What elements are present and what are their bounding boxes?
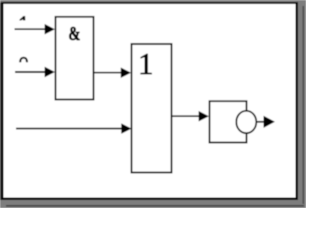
arrowhead W3 (121, 68, 131, 78)
wire W4 (third input, long bottom wire) (16, 128, 125, 130)
svg-text:1: 1 (138, 46, 154, 81)
svg-text:&: & (68, 21, 80, 44)
wire W1 (top input to AND) (15, 28, 48, 30)
AND gate U1 (rectangle) (56, 17, 94, 100)
output wire W6 (256, 121, 266, 123)
output negation circle (236, 111, 256, 133)
wire W3 (AND output to OR input) (94, 72, 124, 74)
frame border (black) (1, 2, 298, 200)
wire W5 (OR output to output block) (172, 115, 203, 117)
frame left dark edge (0, 3, 2, 201)
wire W2 (second input to AND) (15, 71, 48, 73)
arrowhead W5 (199, 111, 209, 121)
OR gate U2 (rectangle) (132, 44, 172, 173)
arrowhead W1 (45, 24, 55, 34)
label 1 (clipped digit above wire W1) (23, 16, 26, 21)
frame shadow darker inner lines (302, 6, 304, 204)
label 0 (clipped digit above wire W2, top arc) (19, 57, 28, 63)
arrowhead W2 (45, 67, 55, 77)
arrowhead W4 (121, 123, 131, 133)
output arrowhead (264, 116, 275, 128)
canvas (white drawing area) (4, 4, 296, 198)
output block U3 (rectangle) (210, 101, 247, 142)
